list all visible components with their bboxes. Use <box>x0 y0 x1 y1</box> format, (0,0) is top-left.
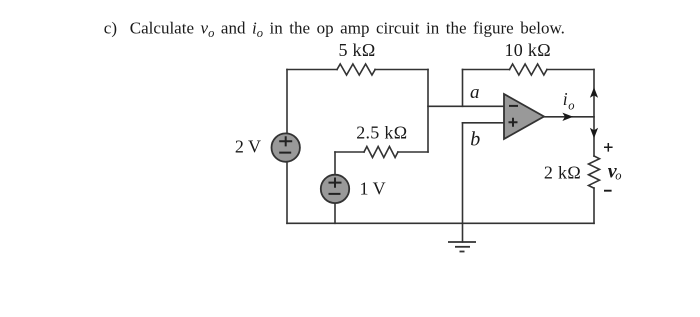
svg-text:1 V: 1 V <box>360 178 386 198</box>
wire left vertical upper <box>286 70 288 134</box>
source V1 2V circle <box>272 133 300 161</box>
wire node b horizontal <box>463 122 505 124</box>
op-amp U1 <box>504 94 544 139</box>
svg-text:o: o <box>615 169 621 183</box>
svg-text:Calculate vo and io in the op: Calculate vo and io in the op amp circui… <box>130 19 565 41</box>
svg-text:b: b <box>470 128 480 150</box>
wire resistor5k to middle vertical <box>375 69 428 71</box>
arrow up on output vertical <box>590 87 598 98</box>
wire feedback top left <box>463 69 510 71</box>
svg-text:5 kΩ: 5 kΩ <box>338 40 375 60</box>
wire node a horizontal <box>428 105 504 107</box>
resistor R 5k zigzag <box>337 64 375 75</box>
svg-text:2.5 kΩ: 2.5 kΩ <box>356 123 407 143</box>
source V2 1V circle <box>321 175 349 203</box>
svg-text:i: i <box>563 89 568 109</box>
svg-text:2 kΩ: 2 kΩ <box>544 163 581 183</box>
wire middle vertical <box>427 70 429 153</box>
ground symbol bars <box>448 242 476 252</box>
title text <box>104 19 565 41</box>
wire op-amp output <box>544 116 594 118</box>
resistor R 2k vertical zigzag <box>589 156 600 188</box>
svg-text:c): c) <box>104 19 117 38</box>
arrow io on output wire <box>562 113 573 121</box>
wire feedback top right <box>547 69 594 71</box>
wire left vertical lower <box>286 162 288 224</box>
wire output vertical upper <box>593 70 595 157</box>
arrow down on output vertical <box>590 128 598 139</box>
svg-text:2 V: 2 V <box>235 136 261 156</box>
svg-text:10 kΩ: 10 kΩ <box>505 40 551 60</box>
ground stem <box>462 223 464 242</box>
wire 1V vertical bottom <box>334 203 336 223</box>
wire node b vertical to ground rail <box>462 123 464 224</box>
wire 1V vertical top <box>334 152 336 175</box>
wire 2.5k branch right <box>398 151 428 153</box>
resistor R 10k zigzag <box>510 64 547 75</box>
wire bottom rail <box>287 222 594 224</box>
wire output vertical lower <box>593 188 595 223</box>
svg-text:o: o <box>568 98 574 112</box>
resistor R 2.5k zigzag <box>364 147 398 158</box>
label plus vo <box>604 143 613 152</box>
svg-text:a: a <box>470 82 480 103</box>
wire feedback vertical <box>462 70 464 107</box>
wire top-left branch <box>287 69 337 71</box>
label minus vo <box>604 190 612 192</box>
wire 2.5k branch left <box>335 151 364 153</box>
